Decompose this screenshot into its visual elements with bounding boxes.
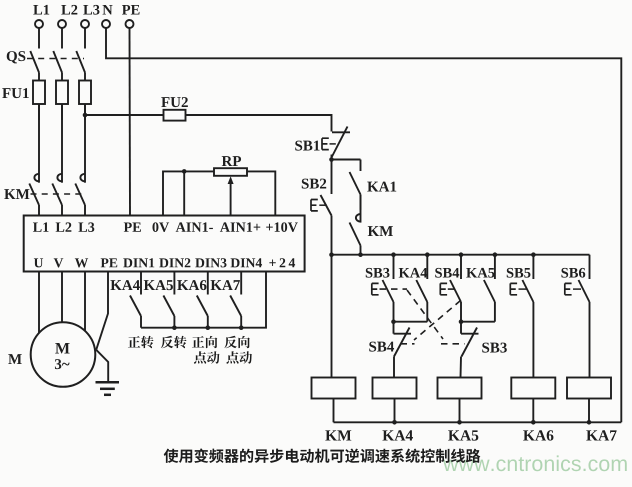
- node junction RP to AIN1-: [182, 169, 187, 174]
- converter terminal 0V: [152, 222, 169, 232]
- pushbutton SB1 label: [295, 141, 319, 151]
- relay contact KA4: [140, 272, 142, 295]
- contactor contact KM: [360, 195, 362, 223]
- wire FU1 pole 1 down: [38, 104, 40, 120]
- switch QS label: [7, 51, 26, 63]
- node junction A: [329, 157, 334, 162]
- wire +24 bus: [141, 272, 266, 328]
- contact label KA1: [367, 182, 396, 192]
- switch QS pole 1 blade: [30, 51, 39, 73]
- pushbutton SB4 NO contact: [460, 255, 462, 279]
- coil KA5: [438, 378, 482, 399]
- wire KA7 coil to bottom bus: [588, 399, 590, 423]
- wire KA6 coil to bottom bus: [532, 399, 534, 423]
- converter terminal L1: [33, 222, 49, 231]
- fuse FU1 pole 2 body: [56, 81, 68, 105]
- wire control bus: [332, 254, 590, 256]
- converter terminal DIN4: [231, 258, 262, 267]
- coil label KA7: [586, 430, 616, 440]
- wire V to motor: [61, 272, 63, 323]
- wire N to right rail: [106, 28, 621, 422]
- converter terminal DIN3: [195, 258, 226, 267]
- wire W to motor: [84, 272, 86, 332]
- switch QS pole 2 blade: [53, 51, 62, 73]
- KM linkage dashed: [31, 193, 85, 195]
- caption title: [164, 448, 481, 462]
- terminal label N: [103, 5, 113, 14]
- ground symbol: [96, 381, 120, 384]
- node junction bottom bus: [392, 420, 397, 425]
- motor M circle: [31, 322, 96, 387]
- wire RP wiper arrow to AIN1+: [230, 180, 232, 216]
- node junction control bus: [391, 252, 396, 257]
- terminal circle L1: [35, 20, 43, 28]
- switch QS pole 2 lead: [61, 28, 63, 48]
- switch QS pole 3 lead: [84, 28, 86, 48]
- wire FU1 pole 3 down: [84, 104, 86, 120]
- relay contact KA6: [207, 272, 209, 295]
- node junction bottom bus: [531, 420, 536, 425]
- wire to KM coil: [331, 255, 333, 378]
- relay contact KA4 label: [399, 268, 427, 278]
- relay contact KA1: [360, 160, 362, 172]
- terminal label L1: [33, 5, 49, 15]
- fuse FU1 label: [2, 88, 28, 98]
- contact label KA5: [144, 280, 173, 290]
- wire RP tap to AIN1-: [183, 171, 185, 215]
- coil label KM: [325, 430, 351, 440]
- pushbutton SB1 actuator: [322, 138, 329, 149]
- wire QS pole 3 to FU1: [84, 73, 86, 81]
- converter terminal DIN2: [159, 258, 190, 267]
- coil label KA6: [523, 430, 553, 440]
- linkage SB4 dashed: [448, 288, 457, 290]
- node junction L3-FU2 tap: [83, 113, 88, 118]
- node junction forward pair: [391, 319, 396, 324]
- linkage SB3 dashed: [380, 288, 408, 290]
- pushbutton SB4 label: [435, 268, 459, 278]
- converter terminal PE: [124, 223, 141, 232]
- potentiometer RP body: [214, 168, 247, 176]
- label reverse jog: [224, 336, 249, 348]
- fuse FU2 label: [161, 97, 188, 107]
- node junction control bus: [459, 252, 464, 257]
- pushbutton SB2 label: [302, 179, 326, 189]
- converter terminal +24: [269, 258, 295, 267]
- wire U to motor: [38, 272, 40, 334]
- coil KA4: [373, 378, 417, 399]
- switch QS pole 1 lead: [38, 28, 40, 48]
- pushbutton SB4 actuator: [440, 283, 447, 294]
- wire bottom bus: [334, 421, 622, 423]
- converter terminal AIN1+: [220, 222, 260, 231]
- node junction reverse pair: [459, 319, 464, 324]
- wire PE down: [96, 272, 108, 350]
- terminal label PE: [122, 5, 140, 14]
- potentiometer RP label: [222, 156, 241, 166]
- pushbutton SB3 NO contact: [393, 255, 395, 279]
- contact label KA6: [177, 280, 206, 290]
- converter terminal L2: [56, 222, 72, 231]
- contact label KM: [368, 226, 393, 236]
- node junction control bus: [329, 252, 334, 257]
- node junction control bus: [425, 252, 430, 257]
- terminal label L2: [61, 5, 77, 15]
- terminal circle L3: [81, 20, 89, 28]
- terminal circle PE: [126, 20, 134, 28]
- converter terminal +10V: [266, 222, 298, 232]
- fuse FU2 body: [164, 110, 186, 121]
- node junction DIN bus: [172, 325, 177, 330]
- motor label M: [8, 354, 21, 364]
- converter terminal L3: [78, 222, 94, 232]
- node junction control bus: [493, 252, 498, 257]
- watermark cntronics: [443, 455, 627, 471]
- node junction bottom bus: [587, 420, 592, 425]
- wire pair join reverse: [461, 321, 495, 323]
- wire QS pole 1 to FU1: [38, 73, 40, 81]
- wire RP left leg to 0V: [163, 171, 214, 215]
- QS linkage dashed: [27, 58, 84, 60]
- node junction control bus: [531, 252, 536, 257]
- label reverse: [161, 336, 187, 348]
- relay contact KA7: [240, 272, 242, 295]
- pushbutton SB6 actuator: [565, 283, 572, 294]
- pushbutton SB1 NC contact: [332, 131, 350, 133]
- converter terminal U: [34, 258, 43, 267]
- wire PE down to converter: [129, 28, 132, 215]
- pushbutton SB5 actuator: [510, 283, 517, 294]
- coil KA6: [511, 378, 555, 399]
- terminal circle L2: [58, 20, 66, 28]
- contactor KM label: [4, 189, 29, 199]
- pushbutton SB3 label: [366, 268, 390, 278]
- coil label KA5: [448, 430, 478, 440]
- converter terminal PE: [101, 258, 118, 267]
- pushbutton SB3 NC contact: [460, 322, 462, 334]
- wire KM coil to bottom bus: [333, 399, 335, 423]
- node junction DIN bus: [239, 325, 244, 330]
- contactor KM main contact 1: [38, 104, 40, 183]
- coil KM: [312, 378, 356, 399]
- converter terminal DIN1: [123, 258, 154, 267]
- pushbutton SB3 NC label: [482, 343, 507, 353]
- contactor KM main contact 2: [61, 104, 63, 183]
- wire FU1 pole 2 down: [61, 104, 63, 120]
- pushbutton SB5 label: [507, 268, 531, 278]
- contact label KA7: [211, 280, 240, 290]
- node junction bottom bus: [457, 420, 462, 425]
- contact label KA4: [110, 280, 139, 290]
- label forward jog: [192, 336, 217, 348]
- wire motor frame to ground: [96, 350, 108, 382]
- relay contact KA5 label: [466, 268, 494, 278]
- coil KA7: [567, 378, 611, 399]
- pushbutton SB6 NO contact: [589, 255, 591, 279]
- pushbutton SB3 actuator: [372, 283, 379, 294]
- node junction control bus: [358, 252, 363, 257]
- converter terminal W: [75, 258, 88, 267]
- relay contact KA5: [494, 255, 496, 279]
- pushbutton SB5 NO contact: [532, 255, 534, 279]
- switch QS pole 3 blade: [76, 51, 85, 73]
- frequency converter box: [24, 216, 305, 272]
- pushbutton SB6 label: [561, 268, 585, 278]
- wire node A to KA1 branch: [332, 159, 361, 161]
- fuse FU1 pole 1 body: [33, 81, 45, 105]
- pushbutton SB4 NC label: [369, 342, 394, 352]
- relay contact KA4: [426, 255, 428, 279]
- terminal circle N: [102, 20, 110, 28]
- wire QS pole 2 to FU1: [61, 73, 63, 81]
- wire FU2 to SB1: [186, 115, 332, 132]
- terminal label L3: [83, 5, 99, 15]
- wire RP right leg to +10V: [247, 171, 275, 215]
- motor M text: [55, 343, 69, 353]
- wire pair join forward: [394, 321, 428, 323]
- contactor KM main contact 3: [84, 104, 86, 183]
- coil label KA4: [382, 430, 412, 440]
- wire KA5 coil to bottom bus: [459, 399, 461, 423]
- wire KA4 coil to bottom bus: [394, 399, 396, 423]
- wire L3 tap to FU2: [85, 114, 164, 116]
- pushbutton SB2 actuator: [311, 200, 318, 211]
- converter terminal AIN1-: [176, 222, 213, 231]
- fuse FU1 pole 3 body: [79, 81, 91, 105]
- pushbutton SB4 NC contact: [393, 322, 395, 334]
- relay contact KA5: [173, 272, 175, 295]
- node junction DIN bus: [206, 325, 211, 330]
- label forward: [128, 336, 154, 348]
- pushbutton SB2 NO contact: [331, 160, 333, 195]
- converter terminal V: [54, 258, 64, 267]
